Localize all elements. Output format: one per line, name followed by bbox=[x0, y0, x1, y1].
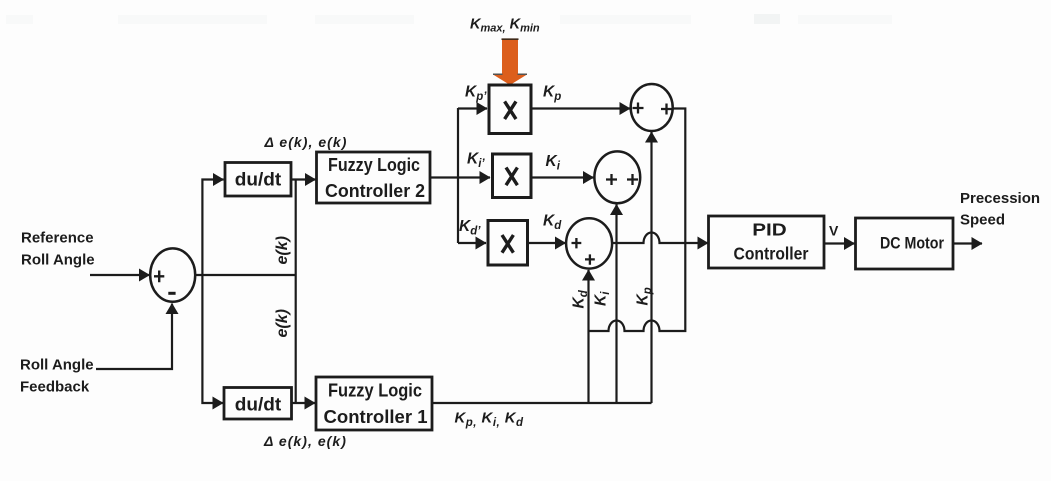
block Fuzzy Logic Controller 2 bbox=[317, 152, 431, 203]
svg-text:Ki: Ki bbox=[546, 153, 561, 173]
wire: FLC2 output to gain column bbox=[430, 176, 458, 178]
svg-text:Kp, Ki, Kd: Kp, Ki, Kd bbox=[455, 410, 525, 430]
wire: feedback line up into S1 bbox=[96, 304, 172, 370]
svg-text:Controller 1: Controller 1 bbox=[324, 407, 428, 427]
svg-text:Ki’: Ki’ bbox=[467, 151, 485, 171]
svg-text:Kp: Kp bbox=[543, 84, 561, 104]
wire: Ki' branch into X2 bbox=[458, 176, 490, 178]
wire: PID output V to DC Motor bbox=[824, 242, 854, 244]
wire: Ki feed up into S3 bbox=[615, 205, 617, 404]
svg-text:Δ e(k), e(k): Δ e(k), e(k) bbox=[263, 433, 347, 449]
multiplier X2 bbox=[493, 154, 532, 198]
svg-text:Fuzzy Logic: Fuzzy Logic bbox=[328, 381, 422, 401]
svg-text:Controller: Controller bbox=[734, 244, 809, 264]
multiplier X3 bbox=[488, 221, 528, 266]
multiplier X1 bbox=[489, 85, 531, 134]
svg-text:du/dt: du/dt bbox=[235, 169, 282, 190]
svg-text:du/dt: du/dt bbox=[235, 394, 282, 415]
wire: du/dt top to FLC2 bbox=[291, 178, 316, 180]
label: Roll Angle Feedback bbox=[20, 357, 94, 396]
wire: left branch vertical (to both du/dt blocks) bbox=[202, 180, 223, 276]
svg-text:DC Motor: DC Motor bbox=[880, 234, 944, 253]
svg-text:Kmax, Kmin: Kmax, Kmin bbox=[470, 17, 540, 35]
S1 plus sign bbox=[154, 271, 164, 283]
svg-text:Reference: Reference bbox=[21, 230, 94, 247]
wire: gain distribution vertical bbox=[457, 108, 459, 243]
svg-text:Kp: Kp bbox=[635, 287, 655, 305]
svg-text:Fuzzy Logic: Fuzzy Logic bbox=[328, 155, 420, 175]
svg-text:Kp’: Kp’ bbox=[465, 84, 487, 104]
block DC Motor bbox=[856, 218, 954, 269]
svg-text:Kd’: Kd’ bbox=[459, 218, 481, 238]
wire: X3 output Kd to S4 bbox=[529, 242, 566, 244]
label: Precession Speed bbox=[960, 190, 1040, 229]
svg-text:Kd: Kd bbox=[543, 213, 562, 233]
svg-text:e(k): e(k) bbox=[274, 309, 291, 337]
wire: Kd feed up into S4 bbox=[587, 270, 589, 403]
S1 minus sign bbox=[168, 292, 175, 295]
block Fuzzy Logic Controller 1 bbox=[316, 377, 432, 430]
block PID Controller bbox=[709, 216, 825, 268]
svg-text:Precession: Precession bbox=[960, 190, 1040, 207]
block du/dt (top) bbox=[225, 163, 291, 197]
svg-text:Controller 2: Controller 2 bbox=[325, 181, 425, 201]
scan artifact bands (decorative) bbox=[6, 14, 892, 24]
svg-text:Ki: Ki bbox=[593, 291, 613, 306]
wire: Kp feed up into S2 (with no bumps of its own) bbox=[650, 132, 652, 403]
svg-text:Speed: Speed bbox=[960, 212, 1005, 229]
wire: Kp' branch into X1 bbox=[458, 107, 487, 109]
wire: error e(k) from S1 to branch column bbox=[195, 274, 296, 276]
orange arrow (Kmax,Kmin into X1) bbox=[493, 39, 527, 85]
svg-text:e(k): e(k) bbox=[274, 236, 291, 264]
wire: DC Motor output bbox=[953, 242, 982, 244]
svg-text:Kd: Kd bbox=[571, 289, 591, 308]
svg-text:Roll Angle: Roll Angle bbox=[20, 357, 94, 374]
wire: X2 output Ki to S3 bbox=[533, 176, 594, 178]
svg-text:Feedback: Feedback bbox=[20, 379, 90, 396]
summing junction S3 (middle) bbox=[594, 151, 640, 203]
svg-text:Roll Angle: Roll Angle bbox=[21, 252, 95, 269]
wire: FLC1 output bus Kp,Ki,Kd bbox=[432, 402, 652, 404]
label: Reference Roll Angle bbox=[21, 230, 95, 269]
summing junction S2 (top) bbox=[631, 84, 673, 131]
wire: reference input into summing junction bbox=[90, 274, 150, 276]
wire: du/dt bottom to FLC1 bbox=[292, 402, 316, 404]
wire: S4 output to PID (bump over Kp line) bbox=[612, 233, 708, 243]
wire: X1 output Kp to S2 bbox=[533, 107, 631, 109]
svg-text:V: V bbox=[829, 223, 839, 239]
wire: Kd' branch into X3 bbox=[458, 242, 486, 244]
block du/dt (bottom) bbox=[224, 388, 292, 420]
wire: S2 output down and left (bumps over Kp and Ki lines) bbox=[589, 109, 686, 332]
wire: e(k) bus vertical bbox=[295, 180, 297, 404]
svg-text:Δ e(k), e(k): Δ e(k), e(k) bbox=[264, 134, 348, 150]
svg-text:PID: PID bbox=[752, 220, 787, 240]
summing junction S1 bbox=[150, 248, 195, 301]
summing junction S4 (bottom) bbox=[566, 218, 612, 268]
